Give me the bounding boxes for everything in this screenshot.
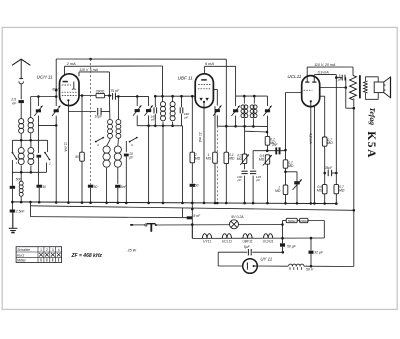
wire UCL cathode exit [320, 95, 325, 97]
wire 182 stub D-E [182, 208, 184, 218]
svg-text:5µF: 5µF [244, 245, 251, 249]
svg-text:Tefag: Tefag [368, 107, 377, 125]
wire sec col down [252, 151, 254, 170]
capacitor 10nF osc grid [98, 108, 101, 115]
speaker neck shading [384, 84, 386, 91]
resistor 500 ohm [286, 218, 297, 222]
svg-text:UCH11: UCH11 [263, 240, 274, 244]
wire 2M col top [191, 96, 193, 152]
tube UCH11 inner anode lead [72, 82, 76, 90]
junction bus 30 [29, 201, 32, 204]
wire cap5 right [344, 77, 347, 79]
wire 0.7M down [324, 146, 326, 184]
wire 0.9mA drop [335, 75, 337, 185]
svg-text:50: 50 [42, 185, 46, 189]
tube UCL11 electrode bars [305, 81, 316, 83]
wire 20pF to bus [125, 156, 127, 203]
wire 226 to box3 [225, 126, 227, 152]
capacitor 100pF [242, 171, 248, 173]
wire 160b down [181, 114, 183, 126]
svg-text:50: 50 [195, 183, 199, 187]
tube UBF11 envelope [195, 74, 213, 108]
inductor IF2 pri b [244, 105, 248, 118]
heater UCH11 [264, 234, 273, 239]
junction UCL bus [310, 202, 313, 205]
inductor L7 osc [116, 120, 121, 139]
capacitor 5uF anode [342, 75, 345, 81]
svg-text:4: 4 [131, 143, 133, 147]
tone arrow [293, 179, 302, 189]
wire tuned low rail [38, 124, 56, 126]
junction if2low c [243, 125, 246, 128]
wire E col [30, 202, 32, 217]
svg-text:2 mA: 2 mA [66, 62, 76, 66]
inductor L4 band [28, 148, 34, 165]
junction 50uF lamp [281, 223, 284, 226]
wire 0.7Mout to bus [335, 194, 337, 204]
tube UCL11 grids [304, 89, 313, 91]
junction trafo bottom [353, 107, 356, 110]
svg-text:50: 50 [94, 185, 98, 189]
wire L6 gap [109, 138, 111, 139]
capacitor 50nF gang col [88, 185, 93, 188]
wire if1 top rail [155, 95, 196, 97]
inductor L5 wave trap [19, 181, 23, 196]
tube UCH11 grids [62, 85, 77, 96]
wire rail A [56, 58, 226, 60]
tube UCL11 right pin [313, 75, 315, 82]
junction if1 cap top [154, 95, 157, 98]
junction 0.9 cap [335, 172, 338, 175]
transformer T1 secondary [364, 81, 368, 93]
switch contact S2 [44, 152, 50, 161]
wire 0.6M to bus [324, 194, 326, 204]
table Schalter [16, 247, 62, 263]
svg-text:5V 0,2A: 5V 0,2A [231, 215, 244, 219]
wire antenna down [20, 59, 22, 78]
capacitor tone blob [294, 181, 300, 184]
junction avc end [284, 149, 287, 152]
svg-text:1: 1 [40, 248, 42, 252]
junction anode cap5 [345, 86, 348, 89]
capacitor 50nF [37, 185, 42, 188]
wire 32uF down [310, 254, 312, 266]
svg-text:60V: 60V [52, 88, 59, 92]
tube UCH11 envelope [60, 74, 80, 106]
junction 5uF right [282, 251, 285, 254]
field coil choke [289, 264, 304, 270]
capacitor 32uF [309, 251, 314, 254]
volume control contact circle [145, 224, 147, 226]
resistor 1 Mohm [213, 152, 218, 163]
svg-text:UCH 11: UCH 11 [37, 75, 53, 80]
capacitor 500pF [10, 186, 15, 189]
table header digits [40, 248, 60, 252]
inductor IF2 sec a [250, 105, 254, 118]
junction anode rail a [81, 94, 84, 97]
wire UY left col [217, 252, 219, 266]
svg-text:UBF11: UBF11 [242, 240, 252, 244]
junction rail C meet [108, 94, 111, 97]
wire grid col upper [285, 93, 287, 151]
trimmer capacitor C2 [52, 106, 60, 116]
wire secondary top loop [366, 77, 379, 82]
heater UBF11 [243, 234, 252, 239]
wire 5uF line left [218, 251, 247, 253]
svg-text:110 V, 20 mA: 110 V, 20 mA [314, 63, 336, 67]
junction UCH cathode bus [67, 201, 70, 204]
junction low rail L4 [30, 171, 33, 174]
junction gridcol bus [284, 202, 287, 205]
junction if1 pri low [162, 125, 165, 128]
wire 20pF col [125, 141, 127, 152]
resistor 390 ohm [96, 93, 105, 97]
svg-text:390Ω: 390Ω [96, 89, 105, 93]
ground symbol [9, 228, 18, 232]
resistor 0.1 Mohm [265, 136, 270, 145]
wire trimmer C2 col top [55, 59, 57, 106]
junction if1 railB [161, 95, 164, 98]
wire L7 gap [117, 138, 119, 139]
wire L1 to node [20, 134, 22, 141]
tube UCL11 cathode dot [310, 100, 312, 102]
svg-text:1: 1 [16, 161, 18, 165]
trimmer capacitor C3 [133, 105, 141, 115]
potentiometer tone [263, 155, 272, 166]
junction if1 sec top [171, 95, 174, 98]
inductor IF1 secondary [170, 102, 175, 121]
wire L6-L8 join [107, 140, 110, 146]
wire L4 bottom [30, 165, 32, 172]
svg-text:32 µF: 32 µF [314, 250, 324, 254]
wire trafo top stub [352, 67, 354, 75]
svg-text:21 mA: 21 mA [198, 131, 202, 143]
capacitor 160pF a [154, 107, 157, 113]
wire bias line [283, 220, 287, 222]
junction 2M lampline [191, 223, 194, 226]
wire osc col2 top [117, 96, 119, 119]
svg-text:pF: pF [128, 156, 134, 160]
svg-text:nF: nF [12, 101, 17, 105]
tube UCL11 envelope [302, 76, 320, 107]
svg-text:Mittel: Mittel [17, 259, 26, 263]
wire if2 sec top stub [253, 96, 255, 104]
transformer T1 primary zigzag [350, 75, 357, 99]
wire 182 col [182, 126, 184, 203]
wire UCH cathode down [67, 100, 69, 202]
svg-text:8 nF: 8 nF [193, 214, 201, 218]
junction UCLcath bus [313, 202, 316, 205]
wire det rail upper [245, 130, 267, 133]
junction L8 bus [105, 202, 108, 205]
wire if1 sec bottom [172, 122, 174, 126]
wire low band rail [12, 171, 46, 173]
wire UBF cathode down [203, 102, 205, 203]
wire rail A drop [225, 59, 227, 126]
wire L7-L9 join [117, 140, 120, 146]
wire 500pF to ground bus [11, 189, 13, 202]
svg-text:75 pF: 75 pF [110, 89, 120, 93]
junction 0.9 cap5 [335, 76, 338, 79]
potentiometer volume T [147, 224, 156, 232]
wire cap125 to bus [252, 176, 254, 204]
wire rail B2 [205, 65, 236, 67]
wire box to avc [267, 145, 269, 151]
capacitor 8nF [187, 216, 192, 219]
wire left bus top [11, 140, 13, 152]
junction trim4 bus [147, 202, 150, 205]
table X marks [39, 253, 60, 257]
junction if1 sec low [171, 125, 174, 128]
table row labels [17, 248, 31, 263]
wire rail C [79, 71, 109, 73]
junction low rail t4 [147, 124, 150, 127]
wire L8 to bus [106, 168, 108, 203]
wire if1 sec stub [172, 96, 174, 101]
svg-text:MΩ: MΩ [288, 164, 294, 168]
junction 0.7Mout bus [335, 202, 338, 205]
wire L3 bottom [20, 165, 22, 172]
wire trim4 down [148, 115, 150, 202]
svg-text:2: 2 [46, 248, 48, 252]
capacitor 50uF [280, 243, 285, 246]
wire cap25 right [332, 172, 337, 174]
svg-text:50 µF: 50 µF [287, 245, 297, 249]
capacitor padding [37, 155, 42, 158]
wire ground bus to cap [11, 202, 13, 210]
junction grid rail b [136, 95, 139, 98]
inductor L2 secondary [28, 118, 33, 133]
capacitor 5uF heater [248, 249, 251, 255]
svg-text:K5A: K5A [365, 131, 377, 159]
antenna symbol [12, 59, 30, 65]
junction tone bus [296, 202, 299, 205]
capacitor 20pF [124, 154, 129, 157]
wire trimmer C1 col [37, 97, 39, 107]
tube UCH11 anode bar [63, 81, 68, 83]
svg-text:2,5nF: 2,5nF [15, 209, 26, 213]
svg-text:0,9 mA: 0,9 mA [318, 71, 330, 75]
junction C2 low rail [55, 124, 58, 127]
wire grid col top [285, 151, 287, 160]
junction cap100 bus [243, 202, 246, 205]
transformer T1 core [359, 75, 361, 98]
wire rail C left stub [78, 72, 80, 76]
wire L5 to bus [20, 197, 22, 203]
wire trim3 col [136, 96, 138, 106]
wire UCL grid entry [286, 92, 302, 94]
table ticks [41, 258, 59, 261]
volume control lead tip [130, 224, 133, 226]
wire 50uF col [282, 221, 284, 244]
junction 32 heater [310, 237, 313, 240]
inductor IF2 sec b [253, 105, 257, 118]
svg-text:Schalter: Schalter [17, 248, 31, 252]
wire rail C drop [108, 72, 110, 96]
wire to ground bus c1col [38, 188, 40, 202]
wire S2 bottom stub [46, 163, 48, 173]
junction left bus / ground bus [11, 201, 14, 204]
resistor 50k [80, 152, 85, 161]
wire screen res to bus [81, 161, 83, 202]
wire bias right [308, 220, 324, 222]
tube UBF11 cathode dot [203, 101, 205, 103]
wire UBF top cap [204, 66, 206, 74]
wire cap100 to bus [244, 176, 246, 204]
junction cap125 bus [252, 202, 255, 205]
svg-text:6 mA: 6 mA [205, 62, 214, 66]
wire C1 to low rail [37, 116, 39, 126]
svg-text:MΩ: MΩ [206, 156, 212, 160]
svg-text:UBF 11: UBF 11 [178, 75, 194, 80]
inductor IF2 pri a [241, 105, 245, 118]
svg-text:3: 3 [52, 248, 54, 252]
tube UBF11 anode bar [201, 79, 207, 80]
wire C1 col down [37, 125, 39, 153]
svg-text:2nF: 2nF [271, 143, 279, 147]
wire secondary bottom loop [366, 93, 379, 100]
wire C7 down [267, 116, 269, 127]
junction cath cap a [323, 172, 326, 175]
trimmer capacitor C5 [213, 105, 221, 115]
wire anode drop [345, 78, 347, 109]
wire 50uF down [282, 247, 284, 253]
wire if2 top rail [236, 95, 268, 97]
junction grid rail a [117, 95, 120, 98]
capacitor 5nF osc [115, 185, 120, 188]
svg-text:5 mA: 5 mA [90, 68, 99, 72]
junction if1 low cap [154, 125, 157, 128]
junction 2M bus [191, 202, 194, 205]
wire cap to ground [12, 213, 14, 229]
wire tone branch down [296, 172, 298, 204]
trimmer capacitor C6 [231, 106, 239, 116]
wire tone pot down [267, 164, 269, 203]
svg-text:MΩ: MΩ [317, 189, 323, 193]
wire L5 top [20, 172, 22, 181]
junction tuned top b [55, 95, 58, 98]
wire L9 to bus [117, 168, 119, 184]
svg-text:500Ω: 500Ω [288, 219, 296, 223]
wire det rail lower [253, 150, 285, 152]
inductor L3 band [18, 148, 24, 165]
junction if2low d [252, 125, 255, 128]
inductor L1 antenna primary [19, 119, 24, 134]
junction if2 top b [253, 95, 256, 98]
svg-text:UCL11: UCL11 [287, 74, 301, 79]
junction 182 bus [181, 202, 184, 205]
junction dots ground bus extras [11, 201, 298, 205]
resistor 1M grid [283, 185, 288, 195]
inductor L8 osc band [103, 146, 110, 167]
junction if2low b [234, 125, 237, 128]
svg-text:MΩ: MΩ [327, 141, 333, 145]
wire trim5 dashed [216, 126, 218, 203]
svg-text:MΩ: MΩ [259, 158, 265, 162]
wire screen drop [81, 96, 83, 153]
capacitor 5nF det [190, 184, 195, 187]
wire 5uF line right [252, 251, 282, 253]
svg-text:50: 50 [75, 155, 79, 159]
svg-text:MΩ: MΩ [339, 189, 345, 193]
wire anode to trafo [346, 107, 354, 109]
wire 2M blob to heater corner [191, 187, 193, 238]
wire if2 sec foot [252, 118, 254, 126]
junction 32 line [310, 265, 313, 268]
svg-text:MΩ: MΩ [229, 157, 235, 161]
antenna plug socket [19, 81, 24, 84]
tube UCH11 cathode dot [67, 99, 69, 101]
resistor 2 Mohm [190, 152, 195, 163]
wire trim7 col [267, 96, 269, 106]
junction gang bus [89, 201, 92, 204]
junction volume right [155, 224, 157, 226]
wire osc grid coupling b [101, 111, 110, 113]
svg-text:UY11: UY11 [203, 240, 211, 244]
speaker voice coil [374, 82, 384, 93]
wire cap to coil L1 [20, 103, 22, 118]
wire S2 stub top [47, 140, 49, 152]
capacitor 160pF b [180, 107, 183, 113]
rectifier tube UY11 [243, 259, 258, 274]
capacitor 125pF [250, 171, 256, 173]
resistor 0.7M cath [322, 137, 327, 146]
wire rail B [64, 65, 162, 67]
capacitor 2.5nF antenna [19, 100, 24, 103]
wire field to corner [304, 265, 353, 267]
junction if1 2M top [191, 95, 194, 98]
wire 1M col [214, 106, 216, 152]
svg-text:UY 11: UY 11 [260, 256, 272, 261]
capacitor 2nF coupling [275, 147, 280, 154]
junction 1M bus [214, 202, 217, 205]
junction D 192 [191, 208, 194, 211]
wire if1 pri bottom [162, 122, 164, 203]
wire anode rail [79, 95, 96, 97]
junction det lower c7 [266, 149, 269, 152]
wire osc col1 top [108, 96, 111, 120]
wire if2 pri top stub [243, 96, 245, 104]
switch contact S1 [12, 152, 18, 160]
resistor 0.7M out [334, 185, 339, 194]
trimmer capacitor C7 [263, 106, 271, 116]
wire grid col mid [285, 168, 287, 185]
svg-text:25 W: 25 W [127, 249, 137, 253]
wire if1 cap down [154, 114, 156, 126]
wire L2 bottom [30, 133, 32, 140]
junction tonepot bus [266, 202, 269, 205]
wire cap5 left [336, 77, 342, 79]
junction low rail L3 [20, 171, 23, 174]
speaker cone mouth [390, 77, 392, 98]
svg-text:11 mA: 11 mA [64, 142, 68, 152]
resistor 200 ohm [300, 218, 308, 222]
speaker cone [384, 77, 391, 98]
wire UCL cath down [313, 106, 315, 203]
wire 160b top [181, 96, 183, 107]
junction L5 bus [20, 201, 23, 204]
svg-text:3: 3 [97, 143, 99, 147]
wire if1 cap col [154, 96, 156, 107]
svg-text:MΩ: MΩ [275, 189, 281, 193]
trimmer capacitor C1 [34, 106, 42, 116]
svg-text:25µF: 25µF [324, 166, 334, 170]
junction band rail L2 [29, 139, 32, 142]
wire C7 to box [267, 126, 269, 136]
capacitor 25uF [328, 170, 331, 176]
dial lamp [230, 220, 239, 229]
junction 50uF heater [281, 237, 284, 240]
